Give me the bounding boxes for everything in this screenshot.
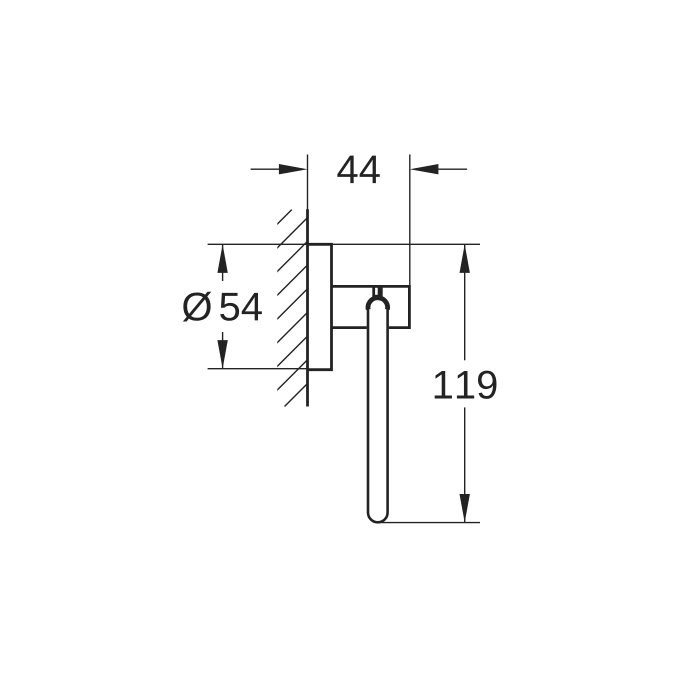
- arrowhead 54 up: [217, 244, 227, 273]
- wall line: [306, 209, 309, 406]
- ring top cap (thick): [368, 298, 388, 310]
- arrowhead 119 down: [460, 494, 470, 523]
- holder arm right edge: [408, 285, 411, 329]
- label 54: [220, 293, 262, 321]
- extension line top (plate top / 119 top): [208, 243, 480, 245]
- arrowhead 54 down: [217, 340, 227, 369]
- arrowhead 119 up: [460, 244, 470, 273]
- ring pivot fork slot: [375, 288, 378, 295]
- extension line bottom (119 mm, ring bottom): [378, 522, 480, 524]
- holder arm bottom left segment: [332, 326, 367, 329]
- extension line bottom of plate (diameter 54): [208, 368, 309, 370]
- holder arm top: [332, 285, 410, 288]
- holder arm bottom right segment: [389, 326, 410, 329]
- arrowhead 44 right: [410, 164, 439, 174]
- ring pivot fork: [372, 286, 382, 297]
- extension line right (44 mm): [409, 155, 411, 287]
- dimension line 119 upper segment: [464, 244, 466, 360]
- label 44: [337, 156, 379, 184]
- dimension line diameter 54 lower segment: [222, 332, 224, 369]
- dimension line 44 right tail: [437, 168, 467, 170]
- dimension line 119 lower segment: [464, 407, 466, 522]
- wall hatching: [95, 210, 482, 407]
- label diameter symbol: [183, 292, 211, 322]
- paper holder ring outline (capsule): [368, 306, 388, 522]
- extension line left (wall face, above wall): [307, 155, 309, 211]
- arrowhead 44 left: [279, 164, 308, 174]
- dimension line diameter 54 upper segment: [222, 244, 224, 281]
- label 119: [435, 371, 497, 399]
- dimension line 44 left tail: [251, 168, 281, 170]
- wall plate (escutcheon) outline: [308, 244, 332, 369]
